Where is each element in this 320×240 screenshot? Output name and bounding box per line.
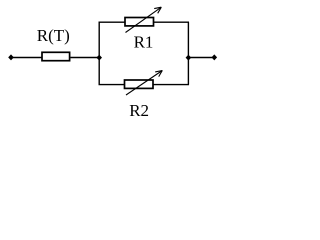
wire: top rail left segment [99, 21, 125, 23]
wire: left terminal to R(T) [11, 57, 42, 59]
rheostat R1 arrow [126, 7, 162, 32]
wire: right vertical branch [187, 22, 189, 84]
svg-text:R1: R1 [134, 32, 154, 51]
rheostat R1 body [125, 18, 154, 26]
left terminal node [8, 54, 14, 60]
wire: bottom rail left segment [99, 84, 125, 86]
junction node A (left) [96, 55, 102, 61]
wire: right junction to right terminal [188, 57, 214, 59]
wire: left vertical branch [98, 22, 100, 84]
wire: top rail right segment [154, 21, 189, 23]
rheostat R2 arrow [126, 71, 162, 96]
svg-text:R2: R2 [129, 101, 149, 120]
rheostat R2 body [125, 80, 154, 88]
resistor R(T) body [42, 52, 70, 60]
wire: R(T) to left junction [71, 57, 100, 59]
right terminal node [212, 54, 218, 60]
svg-text:R(T): R(T) [37, 26, 70, 45]
wire: bottom rail right segment [154, 84, 190, 86]
junction node B (right) [186, 55, 192, 61]
